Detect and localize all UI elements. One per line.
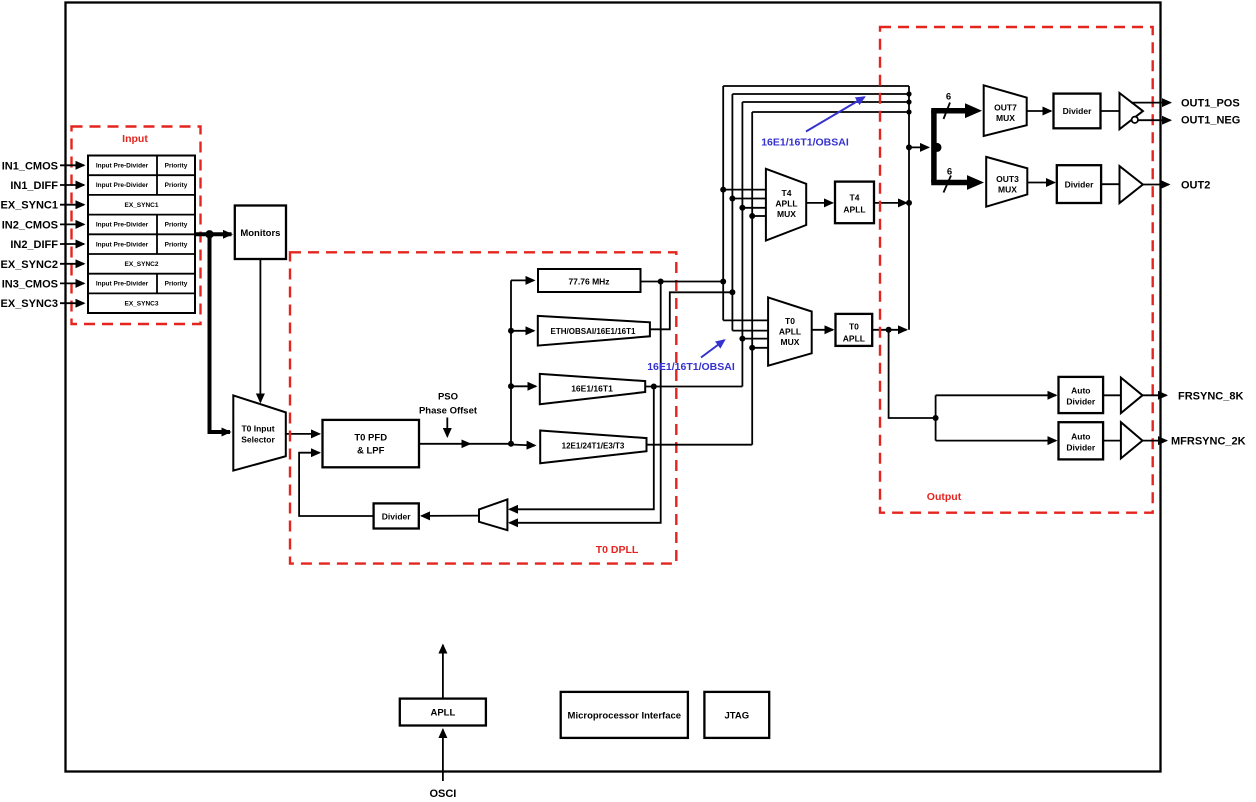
svg-text:16E1/16T1: 16E1/16T1 — [571, 384, 613, 394]
buffer triangle mfrsync — [1121, 422, 1143, 458]
wire feedback from 77.76 down to feedback mux — [510, 282, 661, 523]
thick bus bottom run — [931, 180, 969, 186]
wire EX_SYNC1 arrow — [60, 204, 84, 206]
svg-text:MUX: MUX — [777, 209, 796, 219]
wire OUT1_POS — [1131, 102, 1171, 104]
svg-text:T0: T0 — [849, 322, 859, 332]
svg-text:EX_SYNC3: EX_SYNC3 — [125, 300, 159, 307]
wire feed to ETH divider — [511, 330, 534, 332]
svg-text:APLL: APLL — [843, 205, 865, 215]
wire selector to T0 PFD — [286, 433, 320, 435]
junction tap4 L4 — [749, 213, 755, 219]
svg-text:MUX: MUX — [996, 113, 1015, 123]
block T4 APLL — [835, 182, 874, 224]
svg-text:Input: Input — [122, 133, 148, 145]
wire T4 APLL to collector bus — [874, 202, 907, 204]
wire L4 top run to collector — [752, 111, 909, 113]
wire T0 mux to T0 APLL — [812, 329, 833, 331]
mux T4 APLL MUX — [766, 169, 806, 241]
collector bus vertical — [908, 86, 910, 330]
T0 DPLL red dashed box — [290, 252, 676, 563]
inversion bubble — [1132, 117, 1138, 123]
junction feed to 16E1 divider — [508, 383, 514, 389]
block Monitors — [235, 206, 286, 260]
junction input bus — [205, 230, 213, 238]
junction auto divider split — [933, 415, 939, 421]
wire IN1_CMOS arrow — [60, 164, 84, 166]
wire T0 mux tap 1 (L1 corner) — [723, 319, 769, 321]
wire split vertical — [935, 395, 937, 440]
svg-text:APLL: APLL — [779, 327, 801, 337]
svg-text:OUT1_POS: OUT1_POS — [1181, 98, 1240, 110]
wire T0 APLL to collector bus — [872, 329, 906, 331]
wire 12E1 output to L4 riser — [647, 444, 753, 446]
svg-text:T0 Input: T0 Input — [241, 424, 274, 434]
junction collector L2 — [906, 91, 911, 96]
wire L2 vertical — [731, 94, 733, 331]
wire divider to buffer out1 — [1101, 110, 1120, 112]
svg-text:Auto: Auto — [1071, 386, 1090, 396]
svg-text:6: 6 — [946, 92, 951, 103]
svg-text:OUT2: OUT2 — [1181, 180, 1210, 192]
svg-text:IN3_CMOS: IN3_CMOS — [2, 278, 58, 290]
junction T0 tap3 L3 — [739, 336, 745, 342]
svg-text:OUT7: OUT7 — [994, 103, 1017, 113]
junction feed node — [508, 441, 514, 447]
block Divider (feedback) — [374, 503, 419, 528]
block T0 PFD & LPF — [323, 420, 420, 467]
svg-text:Monitors: Monitors — [240, 228, 280, 239]
junction collector L3 — [906, 99, 911, 104]
svg-text:IN2_CMOS: IN2_CMOS — [2, 219, 58, 231]
bus width slash top — [944, 103, 951, 120]
blue arrow lower — [701, 340, 725, 358]
input pre-divider / priority block — [88, 156, 195, 314]
thick bus arrowhead to OUT7 MUX — [965, 103, 982, 118]
block Divider out2 — [1057, 165, 1101, 203]
svg-text:T0 DPLL: T0 DPLL — [596, 544, 639, 556]
svg-text:Selector: Selector — [241, 435, 275, 445]
svg-text:OUT3: OUT3 — [996, 174, 1019, 184]
wire feedback mux to divider — [422, 515, 480, 517]
junction feedback tap 77.76 — [658, 279, 664, 285]
wire T4 mux tap 2 — [732, 198, 767, 200]
wire 77.76MHz output to L1 — [641, 281, 724, 283]
block Auto Divider 2 — [1059, 422, 1104, 459]
wire EX_SYNC2 arrow — [60, 263, 84, 265]
block Divider out1 — [1054, 94, 1101, 129]
wire EX_SYNC3 arrow — [60, 302, 84, 304]
wire FRSYNC_8K — [1143, 394, 1167, 396]
svg-text:IN1_DIFF: IN1_DIFF — [10, 180, 58, 192]
svg-text:EX_SYNC1: EX_SYNC1 — [125, 202, 159, 209]
svg-text:APLL: APLL — [775, 199, 797, 209]
wire MFRSYNC_2K — [1143, 440, 1167, 442]
wire collector to thick bus — [909, 146, 929, 148]
svg-text:6: 6 — [947, 167, 952, 178]
svg-text:Priority: Priority — [165, 163, 188, 170]
wire L3 top run to collector — [742, 101, 909, 103]
svg-text:T4: T4 — [850, 193, 860, 203]
svg-text:77.76 MHz: 77.76 MHz — [568, 276, 609, 286]
wire T0 PFD output — [419, 443, 511, 445]
svg-text:Divider: Divider — [382, 512, 412, 522]
wire T4 mux to T4 APLL — [806, 202, 832, 204]
wire PSO arrow down — [446, 418, 448, 437]
junction collector L4 — [906, 109, 911, 114]
junction T4 out on collector — [906, 200, 912, 206]
wire T0 mux tap 2 (L2 corner) — [732, 330, 769, 332]
svg-text:Priority: Priority — [165, 222, 188, 229]
wire divider to T0 PFD feedback input — [299, 453, 374, 516]
wire to auto divider 2 — [936, 440, 1056, 442]
buffer triangle out1 — [1120, 93, 1143, 129]
mux OUT3 MUX — [986, 157, 1027, 207]
svg-text:IN1_CMOS: IN1_CMOS — [2, 160, 58, 172]
block JTAG — [704, 692, 769, 738]
junction thick bus — [933, 143, 942, 152]
thick bus arrowhead to OUT3 MUX — [967, 175, 984, 190]
wire L2 top run to collector — [732, 93, 909, 95]
svg-text:OSCI: OSCI — [429, 788, 456, 800]
wire IN3_CMOS arrow — [60, 282, 84, 284]
wire feedback from 16E1 down to feedback mux — [510, 387, 654, 510]
divider 12E1/24T1/E3/T3 — [540, 431, 646, 464]
svg-text:Divider: Divider — [1063, 106, 1093, 116]
wire T4 mux tap 1 — [723, 189, 767, 191]
svg-text:MUX: MUX — [781, 337, 800, 347]
wire L4 vertical — [751, 112, 753, 445]
block APLL — [400, 699, 486, 726]
wire auto divider 1 to buffer — [1103, 394, 1121, 396]
wire auto divider 2 to buffer — [1103, 440, 1121, 442]
svg-text:Priority: Priority — [165, 281, 188, 288]
thick bus vertical — [931, 111, 937, 183]
svg-text:Input Pre-Divider: Input Pre-Divider — [96, 163, 149, 170]
wire feed riser vertical — [510, 280, 512, 443]
wire input block to monitors (thick) — [195, 232, 232, 236]
junction feed to ETH divider — [508, 328, 514, 334]
bus width slash bottom — [944, 176, 952, 193]
junction tap3 L3 — [739, 205, 745, 211]
wire IN2_CMOS arrow — [60, 223, 84, 225]
buffer triangle out2 — [1120, 166, 1143, 203]
svg-text:Input Pre-Divider: Input Pre-Divider — [96, 222, 149, 229]
svg-text:EX_SYNC2: EX_SYNC2 — [125, 261, 159, 268]
wire IN1_DIFF arrow — [60, 184, 84, 186]
wire IN2_DIFF arrow — [60, 243, 84, 245]
svg-text:EX_SYNC3: EX_SYNC3 — [1, 298, 58, 310]
arrowhead mid wire — [462, 440, 472, 449]
wire T4 mux tap 4 — [752, 215, 767, 217]
svg-text:16E1/16T1/OBSAI: 16E1/16T1/OBSAI — [647, 361, 735, 373]
wire T0 mux tap 4 — [752, 347, 769, 349]
junction tap2 L2 — [729, 196, 735, 202]
svg-text:EX_SYNC2: EX_SYNC2 — [1, 259, 58, 271]
wire T0 mux tap 3 — [742, 338, 769, 340]
svg-text:Priority: Priority — [165, 241, 188, 248]
svg-text:T4: T4 — [782, 188, 792, 198]
mux feedback selector — [479, 499, 507, 530]
mux OUT7 MUX — [984, 85, 1027, 136]
Output red dashed box — [880, 27, 1153, 513]
junction T0 out branch — [886, 327, 892, 333]
wire L3 vertical — [741, 102, 743, 387]
svg-text:12E1/24T1/E3/T3: 12E1/24T1/E3/T3 — [562, 442, 625, 451]
wire L1 vertical — [722, 86, 724, 320]
wire divider to buffer out2 — [1101, 183, 1119, 185]
wire feed to 16E1 divider — [511, 385, 536, 387]
svg-text:ETH/OBSAI/16E1/16T1: ETH/OBSAI/16E1/16T1 — [551, 327, 636, 336]
svg-text:MUX: MUX — [998, 185, 1017, 195]
svg-text:T0 PFD: T0 PFD — [354, 433, 387, 444]
svg-text:MFRSYNC_2K: MFRSYNC_2K — [1171, 436, 1246, 448]
junction tap1 L1 — [720, 187, 726, 193]
wire OUT7 MUX to divider — [1027, 110, 1051, 112]
block Microprocessor Interface — [561, 692, 688, 738]
divider 16E1/16T1 — [540, 374, 645, 404]
junction 77.76 on L1 — [720, 279, 726, 285]
svg-text:Auto: Auto — [1071, 432, 1090, 442]
svg-text:Divider: Divider — [1065, 180, 1095, 190]
svg-text:Divider: Divider — [1066, 443, 1096, 453]
wire to auto divider 1 — [936, 394, 1056, 396]
svg-text:Output: Output — [927, 491, 962, 503]
svg-text:Divider: Divider — [1066, 397, 1096, 407]
wire APLL output up — [442, 645, 444, 699]
wire feed to 12E1 divider — [511, 445, 535, 446]
buffer triangle frsync — [1121, 378, 1143, 414]
wire OSCI input — [442, 730, 444, 782]
wire T4 mux tap 3 — [742, 207, 767, 209]
wire feed to 77.76MHz — [511, 279, 534, 281]
wire OUT3 MUX to divider — [1027, 182, 1054, 184]
wire ETH output up to L2 — [650, 292, 733, 329]
svg-text:Microprocessor Interface: Microprocessor Interface — [568, 711, 682, 722]
svg-text:16E1/16T1/OBSAI: 16E1/16T1/OBSAI — [761, 137, 849, 149]
junction feedback tap 16E1 — [651, 384, 657, 390]
mux T0 APLL MUX — [768, 297, 812, 365]
svg-text:Priority: Priority — [165, 182, 188, 189]
wire L1 top run to collector — [723, 85, 909, 87]
thick bus top run — [931, 108, 966, 114]
input section red dashed box "Input" — [72, 127, 201, 325]
wire OUT2 — [1143, 184, 1169, 186]
svg-text:PSO: PSO — [438, 392, 458, 403]
junction T0 tap4 L4 — [749, 345, 755, 351]
wire input bus down to T0 selector (thick) — [210, 234, 231, 432]
svg-text:APLL: APLL — [430, 708, 455, 719]
svg-text:Input Pre-Divider: Input Pre-Divider — [96, 182, 149, 189]
svg-text:FRSYNC_8K: FRSYNC_8K — [1178, 390, 1243, 402]
block T0 APLL — [836, 314, 873, 346]
svg-text:JTAG: JTAG — [724, 711, 749, 722]
blue arrow upper — [806, 97, 865, 132]
wire OUT1_NEG — [1138, 119, 1171, 121]
wire monitors to selector — [259, 259, 261, 402]
svg-text:OUT1_NEG: OUT1_NEG — [1181, 114, 1240, 126]
svg-text:Input Pre-Divider: Input Pre-Divider — [96, 241, 149, 248]
divider ETH/OBSAI/16E1/16T1 — [538, 316, 650, 346]
wire T0 APLL branch down to auto dividers — [889, 330, 936, 418]
junction collector to thick bus — [906, 144, 912, 150]
block Auto Divider 1 — [1059, 377, 1104, 413]
wire 16E1 output to L3 riser — [645, 386, 742, 388]
mux T0 Input Selector — [233, 395, 285, 470]
svg-text:IN2_DIFF: IN2_DIFF — [10, 239, 58, 251]
junction ETH on L2 — [729, 289, 735, 295]
svg-text:T0: T0 — [785, 316, 795, 326]
svg-text:Phase Offset: Phase Offset — [419, 406, 478, 417]
svg-text:EX_SYNC1: EX_SYNC1 — [1, 200, 58, 212]
svg-text:& LPF: & LPF — [357, 446, 385, 457]
svg-text:Input Pre-Divider: Input Pre-Divider — [96, 281, 149, 288]
svg-text:APLL: APLL — [843, 334, 865, 344]
block divider 77.76 MHz — [538, 269, 641, 292]
